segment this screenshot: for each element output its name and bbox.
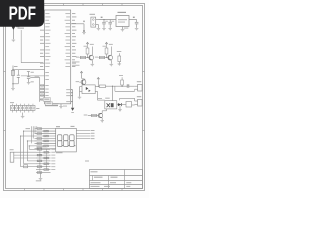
wire XTAL2 to U1 <box>18 75 21 77</box>
ground below diode <box>119 106 121 109</box>
capacitor C3 electrolytic <box>136 20 138 23</box>
node bus bend dots <box>20 135 21 136</box>
U1 net labels right outside <box>72 12 75 15</box>
ground below T4 <box>100 120 104 122</box>
RN2 ground <box>40 173 42 178</box>
diode D1 <box>117 104 118 106</box>
wire relay top from resistor <box>112 86 114 101</box>
relay coil and contact dark marks <box>107 103 110 107</box>
ground below crystal rail <box>11 88 15 90</box>
U1 part number label below <box>45 105 58 106</box>
resistor array RN1 rows <box>35 128 56 130</box>
RN2 right net labels <box>51 148 55 151</box>
relay K1 box <box>105 101 117 109</box>
capacitor C2 <box>109 20 111 23</box>
plus mark AVCC <box>83 20 85 22</box>
resistor R pull right <box>118 53 120 56</box>
wire base <box>99 57 109 59</box>
wire box to connector X3 <box>132 104 135 106</box>
ground below power flag <box>12 39 16 41</box>
power flag VCC top-left <box>12 26 16 30</box>
wire branch down <box>114 86 116 91</box>
resistor opto out <box>100 85 106 88</box>
array RN1 label <box>26 127 31 130</box>
RN2 ground label <box>36 179 42 182</box>
transistor T4 <box>98 113 100 117</box>
regulator label above <box>118 12 127 13</box>
resistor base T4 <box>91 114 97 116</box>
capacitor C-load plates <box>17 74 20 76</box>
ground below AVCC <box>82 31 86 33</box>
wire port bus horizontal <box>30 77 39 79</box>
wire base T4 with resistor <box>88 115 99 117</box>
resistor array RN2 boxes <box>37 148 42 150</box>
U1 pin name rows left inside <box>45 12 49 15</box>
wire port bus stubs <box>40 84 45 86</box>
wire crystal branch <box>13 69 18 71</box>
crystal Q1 box <box>11 70 14 75</box>
wire base <box>80 57 90 59</box>
connector X1 power input <box>91 17 96 27</box>
wire collector up with net label <box>91 47 93 56</box>
title block text drawing title <box>94 177 103 178</box>
connector X2 upper <box>138 84 143 91</box>
RN2 internal verticals <box>39 149 41 172</box>
resistor collector vertical <box>86 48 89 54</box>
node crystal top junction <box>12 69 13 70</box>
title block divider 1 <box>92 176 94 181</box>
title block title row text <box>91 171 98 172</box>
node AVCC ground dot <box>83 30 85 32</box>
wire AVCC from U1 <box>71 23 84 25</box>
wires X4 to RN2 <box>14 151 36 153</box>
wire emitter down <box>91 60 93 64</box>
power flag label <box>16 25 20 28</box>
optocoupler OK1 box <box>82 85 95 94</box>
title block label doc <box>85 161 89 162</box>
node base junction <box>87 57 88 58</box>
wire driver output <box>106 85 127 87</box>
resistor value label <box>103 45 107 48</box>
wires mcu bus descend into array <box>36 126 38 128</box>
AREF label <box>18 28 25 29</box>
node junction relay drive <box>112 86 113 87</box>
connector X3 lower <box>138 99 143 106</box>
ground below header <box>22 113 24 116</box>
connector X1 label <box>90 14 96 15</box>
reset labels <box>31 71 34 74</box>
resistor pullup on output <box>121 77 123 80</box>
voltage regulator IC2 box <box>116 16 129 27</box>
connector X4 lower left <box>10 152 14 162</box>
wires bus into RN2 <box>21 166 36 168</box>
base T4 net label <box>84 114 88 117</box>
wire X3 upper routed <box>134 98 136 101</box>
capacitor value labels <box>105 20 108 23</box>
title block outline <box>90 170 143 189</box>
wire relay coil to T4 collector <box>106 109 108 111</box>
resistor array RN2 rows <box>36 148 51 150</box>
title block text date row <box>91 182 97 183</box>
wire AREF vertical <box>20 30 22 63</box>
frame row tick marks left <box>4 71 6 73</box>
ground below transistor <box>91 63 95 65</box>
frame inner border <box>6 6 143 189</box>
relay K1 label above <box>105 97 110 100</box>
contact protection box <box>126 102 132 108</box>
title block row line 3 <box>90 184 143 186</box>
title block text rev row <box>91 186 100 187</box>
wire base T3 label <box>76 80 79 83</box>
header SV1 label <box>36 107 39 110</box>
resistor base horizontal <box>99 56 104 58</box>
node crystal bottom junction <box>12 83 13 84</box>
U1 pin name rows right inside <box>65 12 70 15</box>
ground below C3 <box>135 27 139 29</box>
wire opto right lower pin <box>95 90 97 92</box>
wires left bus descend to lower array <box>20 136 22 167</box>
wire opto left pins <box>80 86 83 88</box>
svg-text:PDF: PDF <box>9 2 36 23</box>
series resistor box on bus <box>24 165 28 168</box>
ground below transistor <box>110 63 114 65</box>
connector X2 label <box>137 81 142 82</box>
resistor base horizontal <box>80 56 85 58</box>
bus label under display <box>56 151 63 154</box>
transistor symbol <box>89 55 91 59</box>
frame column tick marks bottom <box>24 189 26 191</box>
ground below C2 <box>108 27 112 29</box>
transistor T3 <box>81 80 83 84</box>
U1 long right labels RXD TXD <box>72 61 80 64</box>
capacitor C1 electrolytic <box>103 20 105 23</box>
ground below U1 bottom <box>59 106 63 108</box>
capacitor C-reset plates <box>27 76 30 78</box>
net flag label box 1 <box>43 98 50 102</box>
header SV1 pins top <box>11 104 13 106</box>
title block divider 2 <box>108 176 110 189</box>
resistor collector vertical <box>105 48 108 54</box>
ground below regulator <box>121 29 125 31</box>
net label near opto wire <box>98 97 102 100</box>
resistor array RN1 boxes <box>37 128 42 130</box>
display decimal points <box>62 145 63 146</box>
regulator ground pin <box>122 27 124 30</box>
pin header SV1 <box>10 106 14 111</box>
RN2 junction dots <box>39 155 40 156</box>
transistor symbol <box>108 55 110 59</box>
header SV1 pins bottom <box>11 110 13 112</box>
base net label <box>76 56 79 59</box>
capacitor snubber plates <box>126 84 128 87</box>
base net label <box>95 56 98 59</box>
U1 lower left pin rows <box>45 71 49 74</box>
power arrow above transistor cell <box>86 42 89 45</box>
U1 bottom ground pin <box>60 104 62 106</box>
title block divider 3 <box>124 170 126 189</box>
port bus label <box>35 75 40 78</box>
power arrow opto left <box>80 71 83 74</box>
power arrow opto right <box>97 77 100 80</box>
display label above <box>56 126 60 127</box>
wire emitter down <box>110 60 112 64</box>
node opto output junction <box>98 86 99 87</box>
resistor value label <box>84 45 88 48</box>
connector X3 label <box>137 96 142 97</box>
ground below C1 <box>102 27 106 29</box>
U1 port D pin rows right <box>66 88 70 91</box>
wire crystal rail <box>12 66 14 89</box>
connector X4 label <box>10 148 14 151</box>
title block row line 1 <box>90 175 143 177</box>
microcontroller U1 box <box>45 10 71 104</box>
wire XTAL1 to U1 <box>18 69 44 71</box>
node base junction <box>106 57 107 58</box>
display LED1 box <box>56 128 77 152</box>
frame outer border <box>4 4 145 191</box>
power arrow above transistor cell <box>105 42 108 45</box>
ground below opto left <box>78 96 82 98</box>
wire power rail <box>98 19 116 21</box>
wire port bus vertical <box>39 78 41 102</box>
wire collector up with net label <box>110 47 112 56</box>
title block row line 2 <box>90 180 143 182</box>
U1 port D pin rows left <box>45 84 48 87</box>
display right wires <box>76 130 90 132</box>
wires X2 pins <box>135 85 138 87</box>
net flag label box 2 <box>45 102 52 105</box>
crystal rail label <box>14 65 18 68</box>
wire U1 right pins to ground <box>71 89 73 91</box>
frame row tick marks right <box>143 71 145 73</box>
ground below connector X1 <box>97 27 101 29</box>
wire reset net <box>28 72 30 77</box>
optocoupler diode marks <box>86 87 89 90</box>
wire opto right top pin <box>95 86 98 88</box>
wires X3 pins <box>135 100 138 102</box>
ground below reset capacitor <box>27 82 31 84</box>
PDF badge <box>0 0 44 27</box>
RN2 top labels <box>37 145 48 148</box>
frame column tick marks top <box>24 4 26 6</box>
seven segment digits <box>58 135 62 141</box>
node rail junction 1 <box>103 19 104 20</box>
wires array rows to left bus <box>24 130 35 132</box>
ground below pull resistor <box>118 63 122 65</box>
ground arrow below U1 right <box>71 108 74 111</box>
gnd label <box>63 105 67 108</box>
wire emitter T4 to ground <box>101 118 103 120</box>
U1 net labels left outside <box>40 29 44 32</box>
